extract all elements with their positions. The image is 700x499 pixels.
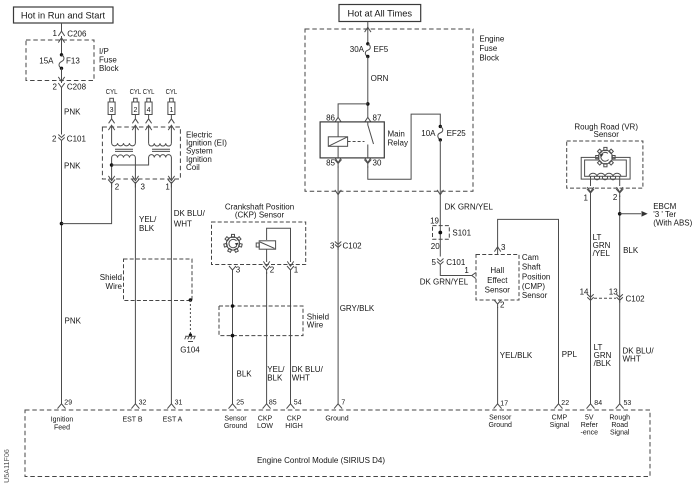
svg-text:/BLK: /BLK: [594, 359, 612, 368]
node Hot at All Times: [339, 5, 421, 22]
svg-text:DK BLU/: DK BLU/: [174, 209, 206, 218]
svg-text:17: 17: [500, 400, 508, 407]
svg-text:Relay: Relay: [388, 138, 408, 147]
svg-text:WHT: WHT: [623, 354, 641, 363]
ECM pin 31: [163, 399, 183, 423]
svg-text:25: 25: [236, 399, 244, 406]
svg-text:S101: S101: [452, 229, 471, 238]
wire BLK sensor ground: [233, 272, 253, 404]
svg-text:20: 20: [431, 242, 440, 251]
svg-text:C101: C101: [67, 135, 87, 144]
svg-text:BLK: BLK: [623, 246, 639, 255]
svg-text:15A: 15A: [39, 56, 54, 65]
svg-text:-ence: -ence: [581, 430, 599, 437]
svg-text:EST B: EST B: [122, 417, 142, 424]
svg-text:2: 2: [270, 266, 275, 275]
svg-text:84: 84: [594, 400, 602, 407]
wire CKP HIGH DK BLU/WHT: [291, 272, 324, 404]
wire PNK down to ECM pin 29: [61, 143, 63, 404]
ECM pin 7: [325, 399, 348, 422]
svg-text:53: 53: [624, 400, 632, 407]
svg-text:1: 1: [169, 107, 173, 114]
ignition coil box: [102, 127, 227, 179]
wire YEL/BLK sensor ground: [498, 307, 533, 404]
svg-text:Hot in Run and Start: Hot in Run and Start: [21, 11, 106, 21]
svg-text:CKP: CKP: [258, 416, 273, 423]
svg-text:2: 2: [52, 135, 57, 144]
svg-text:2: 2: [53, 83, 58, 92]
relay contact link dashed: [348, 141, 365, 143]
svg-text:Block: Block: [99, 64, 120, 73]
svg-text:86: 86: [326, 114, 335, 123]
svg-text:DK GRN/YEL: DK GRN/YEL: [420, 277, 469, 286]
connector C102 pin 14: [580, 288, 594, 303]
svg-text:Ground: Ground: [224, 423, 247, 430]
coil pin 3: [132, 180, 146, 192]
transformer T1 core: [115, 149, 133, 151]
wire DK GRN/YEL from EF25: [437, 140, 493, 257]
svg-text:F13: F13: [66, 56, 80, 65]
junction coil primary feed: [110, 163, 114, 167]
node Hot in Run and Start: [14, 7, 114, 23]
connector C101 pin 5: [432, 258, 466, 267]
svg-text:Main: Main: [388, 129, 405, 138]
svg-text:PNK: PNK: [65, 317, 82, 326]
svg-text:EST A: EST A: [163, 417, 183, 424]
wire CKP LOW YEL/BLK: [267, 272, 286, 404]
svg-text:2: 2: [500, 301, 505, 310]
svg-text:1: 1: [165, 183, 170, 192]
wire coil pin2 branch: [62, 186, 112, 224]
connector C206 pin 1: [53, 28, 87, 38]
svg-text:Effect: Effect: [487, 276, 508, 285]
CMP pin 3: [494, 243, 506, 252]
CKP internal wires: [267, 228, 291, 262]
wire relay 85 to ground GRY/BLK: [337, 167, 339, 404]
wire LT GRN/YEL: [591, 196, 611, 404]
svg-text:87: 87: [373, 114, 382, 123]
ECM pin 53: [609, 400, 631, 437]
svg-text:1: 1: [294, 266, 299, 275]
svg-text:CYL: CYL: [143, 89, 155, 96]
wire LT GRN/BLK: [594, 343, 612, 368]
svg-text:14: 14: [580, 288, 589, 297]
coil pin 2: [108, 180, 120, 192]
junction shield drain: [189, 298, 193, 302]
svg-text:Sensor: Sensor: [224, 416, 247, 423]
svg-text:/YEL: /YEL: [593, 249, 611, 258]
wire header to fuse EF5: [367, 22, 369, 44]
wire DK GRN/YEL to CMP pin 1: [420, 266, 476, 286]
svg-text:WHT: WHT: [174, 219, 192, 228]
CMP sensor name label: [522, 253, 550, 300]
svg-text:DK BLU/: DK BLU/: [292, 365, 324, 374]
svg-text:DK GRN/YEL: DK GRN/YEL: [445, 203, 494, 212]
svg-text:HIGH: HIGH: [285, 423, 303, 430]
svg-text:31: 31: [175, 399, 183, 406]
wire branch to relay pin 86: [338, 104, 368, 117]
connector C208 pin 2: [53, 83, 87, 92]
connector C101 pin 2: [52, 135, 86, 144]
svg-text:30: 30: [373, 159, 382, 168]
svg-text:3: 3: [236, 266, 241, 275]
svg-text:C102: C102: [343, 241, 363, 250]
svg-text:G104: G104: [180, 346, 200, 355]
svg-text:BLK: BLK: [267, 374, 283, 383]
svg-text:LOW: LOW: [257, 423, 273, 430]
wire CMP signal PPL: [498, 219, 578, 403]
coil pin arrows at box edge: [108, 125, 114, 130]
wire from header to C206: [61, 23, 63, 28]
connector C102 pin 3: [330, 241, 362, 250]
ECM pin 17: [489, 400, 512, 429]
svg-text:YEL/BLK: YEL/BLK: [500, 351, 533, 360]
svg-text:2: 2: [613, 193, 618, 202]
CKP pin 2: [263, 266, 275, 275]
wire EST A DK BLU/WHT: [171, 186, 205, 404]
svg-text:PNK: PNK: [64, 162, 81, 171]
svg-text:3: 3: [330, 241, 335, 250]
CKP pin 1: [287, 266, 299, 275]
svg-text:CYL: CYL: [130, 89, 142, 96]
svg-text:(CMP): (CMP): [522, 282, 545, 291]
ECM pin 85: [257, 399, 277, 430]
svg-text:5: 5: [432, 258, 437, 267]
relay pin 85: [326, 158, 342, 168]
svg-text:Ignition: Ignition: [51, 417, 74, 424]
CKP pickup coil symbol: [256, 241, 275, 249]
svg-text:PPL: PPL: [562, 350, 578, 359]
svg-text:Wire: Wire: [106, 282, 123, 291]
svg-text:C208: C208: [67, 83, 87, 92]
CMP hall effect sensor box: [476, 255, 519, 301]
spark plug CYL 4: [143, 89, 155, 123]
svg-text:(CKP) Sensor: (CKP) Sensor: [235, 210, 285, 219]
main relay K: [320, 122, 408, 158]
rough road sensor box: [567, 122, 643, 188]
svg-text:C102: C102: [626, 295, 646, 304]
svg-text:Engine: Engine: [479, 35, 504, 44]
svg-text:1: 1: [53, 29, 58, 38]
svg-text:4: 4: [147, 107, 151, 114]
svg-text:13: 13: [609, 288, 618, 297]
svg-text:EF25: EF25: [447, 129, 467, 138]
wire primary link to T2: [112, 158, 149, 166]
svg-text:1: 1: [584, 194, 589, 203]
coil pin 1: [165, 180, 175, 192]
svg-text:BLK: BLK: [139, 224, 155, 233]
svg-text:Sensor: Sensor: [489, 415, 512, 422]
CKP sensor box: [212, 203, 306, 265]
svg-text:CKP: CKP: [287, 416, 302, 423]
wire into fuse block: [61, 36, 63, 55]
transformer T1 primary: [112, 155, 136, 179]
svg-text:Block: Block: [479, 53, 500, 62]
ECM pin 54: [285, 399, 303, 430]
svg-text:32: 32: [139, 399, 147, 406]
ECM pin 25: [224, 399, 247, 430]
CKP reluctor wheel icon: [224, 234, 242, 252]
svg-text:Refer: Refer: [581, 422, 599, 429]
svg-text:2: 2: [115, 183, 120, 192]
ECM pin 32: [122, 399, 146, 423]
svg-text:2: 2: [133, 107, 137, 114]
wire shield drain to G104: [189, 300, 191, 335]
junction relay feed: [366, 102, 370, 106]
wire DK BLU/WHT rough road: [623, 346, 655, 363]
svg-text:GRY/BLK: GRY/BLK: [340, 304, 375, 313]
svg-text:Ground: Ground: [325, 416, 348, 423]
svg-text:BLK: BLK: [237, 370, 253, 379]
spark plug CYL 3: [106, 89, 118, 123]
ECM pin 84: [581, 400, 603, 437]
svg-text:Feed: Feed: [54, 424, 70, 431]
C102 link dashed: [594, 297, 616, 299]
relay pin 30: [364, 158, 382, 168]
svg-text:10A: 10A: [421, 129, 436, 138]
svg-text:Shaft: Shaft: [522, 263, 541, 272]
CKP pins at box edge: [263, 261, 269, 266]
svg-text:19: 19: [430, 217, 439, 226]
I/P fuse block box: [26, 40, 120, 81]
svg-text:ORN: ORN: [371, 74, 389, 83]
svg-text:CYL: CYL: [106, 89, 118, 96]
svg-text:Hall: Hall: [490, 266, 504, 275]
spark plug CYL 2: [130, 89, 142, 123]
transformer T1 secondary: [112, 127, 136, 146]
VR coil: [589, 173, 621, 176]
fuse F13 15A: [39, 53, 80, 70]
wire relay 30 to fuse EF25: [368, 114, 441, 179]
wire to EBCM: [620, 202, 693, 228]
svg-text:Sensor: Sensor: [594, 130, 620, 139]
relay pin 86: [326, 114, 341, 123]
svg-text:C206: C206: [67, 29, 87, 38]
svg-text:CMP: CMP: [552, 415, 568, 422]
svg-text:7: 7: [341, 399, 345, 406]
svg-text:C101: C101: [446, 258, 466, 267]
svg-text:YEL/: YEL/: [267, 365, 285, 374]
svg-text:Rough: Rough: [609, 415, 630, 422]
svg-text:Signal: Signal: [550, 422, 570, 429]
svg-text:EF5: EF5: [374, 45, 389, 54]
transformer T2 core: [152, 149, 170, 151]
ground G104: [180, 333, 200, 354]
svg-text:85: 85: [326, 159, 335, 168]
svg-text:Sensor: Sensor: [522, 291, 548, 300]
junction shield top: [231, 304, 235, 308]
svg-text:22: 22: [561, 400, 569, 407]
junction to ignition coil feed: [60, 222, 64, 226]
engine fuse block box: [305, 29, 505, 191]
svg-text:PNK: PNK: [64, 108, 81, 117]
ECM pin 22: [550, 400, 570, 429]
CMP pin 2: [494, 300, 505, 310]
svg-text:WHT: WHT: [292, 374, 310, 383]
svg-text:3: 3: [141, 183, 146, 192]
svg-text:Engine Control Module (SIRIUS: Engine Control Module (SIRIUS D4): [257, 456, 385, 465]
svg-text:Road: Road: [611, 422, 628, 429]
wire EST B YEL/BLK: [135, 186, 157, 404]
svg-text:Position: Position: [522, 272, 550, 281]
relay pin 87: [365, 114, 382, 123]
svg-text:3: 3: [110, 107, 114, 114]
svg-text:(With ABS): (With ABS): [653, 218, 692, 227]
transformer T2 primary: [149, 155, 172, 179]
VR pin 1: [584, 187, 594, 202]
fuse EF5 30A: [350, 42, 389, 58]
svg-text:54: 54: [294, 399, 302, 406]
svg-text:85: 85: [269, 399, 277, 406]
junction EBCM branch: [618, 212, 622, 216]
svg-text:Sensor: Sensor: [485, 286, 511, 295]
wire to C208: [61, 68, 63, 83]
svg-text:CYL: CYL: [166, 89, 178, 96]
VR sensor body: [581, 157, 630, 179]
svg-text:Fuse: Fuse: [479, 44, 497, 53]
VR pin 2: [613, 187, 623, 202]
svg-text:29: 29: [64, 399, 72, 406]
wire PNK: [61, 91, 63, 135]
VR reluctor wheel icon: [596, 147, 615, 166]
shield wire box (EST): [100, 259, 192, 301]
VR pin wires: [591, 177, 620, 187]
wire ORN: [368, 57, 389, 118]
transformer T2 secondary: [149, 127, 172, 146]
svg-text:Signal: Signal: [610, 430, 630, 437]
svg-text:Cam: Cam: [522, 253, 539, 262]
svg-text:30A: 30A: [350, 45, 365, 54]
svg-text:Coil: Coil: [186, 163, 200, 172]
shield wire box (CKP): [219, 306, 329, 336]
svg-text:Hot at All Times: Hot at All Times: [348, 9, 413, 19]
svg-text:3: 3: [501, 243, 506, 252]
wire BLK from VR pin 2: [620, 196, 639, 404]
relay switch: [368, 122, 374, 158]
svg-text:5V: 5V: [585, 415, 594, 422]
connector C102 pin 13: [609, 288, 645, 304]
svg-text:Shield: Shield: [100, 273, 122, 282]
svg-text:Wire: Wire: [307, 320, 324, 329]
spark plug CYL 1: [166, 89, 178, 123]
svg-text:U5A11F06: U5A11F06: [2, 449, 11, 483]
junction shield bottom: [231, 334, 235, 338]
relay coil: [328, 122, 347, 158]
svg-text:1: 1: [464, 266, 469, 275]
ECM box: [25, 410, 650, 477]
fuse EF25 10A: [421, 125, 466, 142]
splice S101: [430, 217, 472, 251]
ECM pin 29: [51, 399, 74, 431]
svg-text:YEL/: YEL/: [139, 215, 157, 224]
CKP pin 3: [229, 266, 241, 275]
svg-text:Ground: Ground: [489, 422, 512, 429]
